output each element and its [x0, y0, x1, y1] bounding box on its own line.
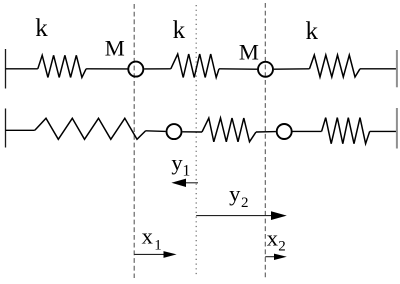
svg-text:2: 2 [241, 195, 249, 211]
svg-text:M: M [239, 40, 259, 65]
dashed reference line through mass 1 equilibrium (node x=134) [133, 4, 135, 278]
svg-text:2: 2 [278, 239, 286, 255]
displaced mass 2 (circle, bottom row) [277, 124, 292, 139]
wire spring to displaced mass 1 [146, 130, 166, 133]
arrow x1 (points right from dashed line 1) [134, 253, 166, 255]
svg-text:k: k [35, 15, 48, 42]
svg-text:x: x [142, 224, 153, 249]
arrow y2 (points right from dotted line to displaced mass 2) [196, 215, 272, 217]
wire wall to spring k1 [6, 68, 38, 70]
left wall top row [5, 49, 7, 89]
svg-text:1: 1 [154, 238, 162, 254]
svg-text:x: x [267, 226, 278, 251]
wire mass M1 to spring k2 [144, 68, 171, 70]
svg-text:k: k [173, 17, 186, 44]
displaced mass 1 (circle, bottom row) [167, 124, 182, 139]
spring k1 (top left) [38, 55, 86, 77]
wire spring k2 to mass M2 [219, 68, 257, 70]
arrow x2 (points right from dashed line 2) [265, 256, 276, 258]
svg-text:y: y [229, 181, 241, 206]
svg-text:k: k [306, 18, 319, 45]
wire middle spring to displaced mass 2 [256, 131, 276, 133]
dotted reference line (node x=196) [195, 5, 197, 275]
dashed reference line through mass 2 equilibrium (node x=265) [264, 3, 266, 279]
wire mass 1 to middle spring [182, 131, 202, 133]
wire spring k3 to right wall [360, 68, 397, 70]
spring k3 (top right) [310, 55, 361, 77]
arrow y1 (points left from dotted line) [183, 182, 198, 184]
mass M2 (circle, top row) [258, 62, 273, 77]
svg-text:M: M [105, 36, 125, 61]
wire wall to stretched spring [6, 129, 35, 131]
middle spring (bottom row) [202, 118, 256, 142]
wire mass 2 to right spring [293, 130, 322, 132]
left wall bottom row [5, 109, 7, 148]
stretched spring (bottom left) [35, 118, 146, 139]
wire mass M2 to spring k3 [274, 68, 310, 70]
wire right spring to wall [370, 130, 397, 132]
right wall bottom row (gray) [396, 108, 398, 149]
spring k2 (top middle) [171, 54, 219, 78]
svg-text:1: 1 [182, 163, 190, 180]
wire spring k1 to mass M1 [86, 68, 128, 70]
right wall top row (gray) [396, 50, 398, 87]
right spring (bottom row) [322, 118, 370, 144]
mass M1 (circle, top row) [128, 62, 143, 77]
